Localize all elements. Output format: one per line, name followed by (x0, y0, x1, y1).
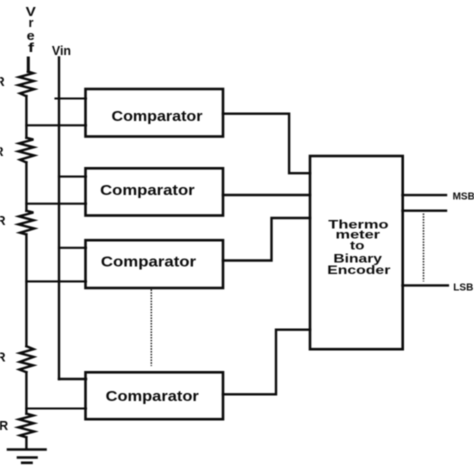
svg-text:Comparator: Comparator (112, 109, 203, 125)
resistor R5 (18, 414, 34, 438)
comparator U4 box (86, 372, 224, 419)
svg-text:R: R (0, 351, 6, 365)
svg-text:LSB: LSB (453, 282, 473, 293)
node Vref label (26, 5, 37, 55)
wire comparator 4 output (223, 330, 310, 395)
svg-text:Comparator: Comparator (101, 255, 197, 271)
ground (8, 450, 46, 463)
svg-text:Vin: Vin (52, 44, 71, 58)
wire ladder R3-R4 (25, 234, 27, 346)
comparator U1 box (86, 89, 224, 137)
wire Vin tap comparator 1 (56, 97, 87, 99)
dotted ellipsis between outputs (423, 214, 425, 282)
wire Vin tap comparator 3 (59, 247, 86, 249)
wire tap to comparator 4 (26, 407, 86, 409)
wire ladder R2-R3 (25, 162, 27, 210)
resistor R1 (18, 72, 34, 97)
comparator U2 box (86, 168, 224, 215)
comparator U3 box (86, 240, 224, 288)
wire tap to comparator 2 (26, 203, 86, 205)
wire Vin tap comparator 2 (59, 176, 86, 178)
wire comparator 3 output (223, 218, 310, 261)
svg-text:MSB: MSB (453, 192, 474, 203)
resistor R3 (18, 211, 34, 235)
wire LSB output (403, 284, 448, 286)
wire tap to comparator 1 (26, 124, 86, 126)
wire ladder R4-R5 (25, 372, 27, 413)
wire comparator 2 output (223, 194, 310, 196)
wire Vin vertical (58, 58, 60, 380)
wire Vref stub (27, 58, 30, 72)
resistor R2 (18, 138, 34, 163)
encoder U5 box (310, 156, 403, 349)
wire Vin corner to comparator 4 (59, 378, 86, 380)
svg-text:R: R (0, 145, 4, 159)
svg-text:R: R (0, 214, 6, 228)
svg-text:Encoder: Encoder (327, 263, 391, 277)
svg-text:Comparator: Comparator (106, 389, 200, 405)
resistor R4 (19, 346, 33, 372)
svg-text:Comparator: Comparator (100, 183, 195, 199)
dotted ellipsis between comparator 3 and 4 (150, 290, 152, 367)
wire ladder R1-R2 (25, 96, 27, 138)
svg-text:R: R (0, 75, 5, 89)
wire comparator 1 output (223, 114, 310, 174)
wire R5 to ground (25, 437, 27, 449)
svg-text:f: f (28, 41, 35, 55)
wire bit output 2 (403, 209, 447, 211)
svg-text:R: R (0, 419, 8, 433)
wire tap to comparator 3 (26, 280, 86, 282)
wire MSB output (403, 194, 447, 196)
